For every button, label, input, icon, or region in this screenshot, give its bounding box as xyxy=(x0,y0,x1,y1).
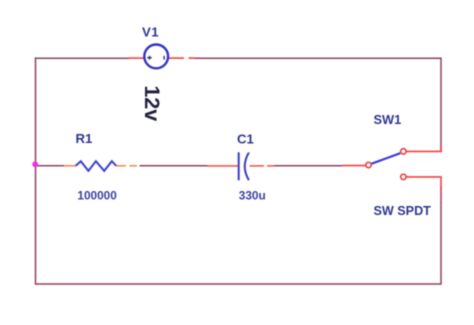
wire bottom side xyxy=(35,283,442,285)
wire middle: node to R1 xyxy=(35,165,64,167)
node junction dot (magenta) xyxy=(32,161,38,167)
V1 minus sign (vertical tick) xyxy=(163,56,165,60)
svg-text:12v: 12v xyxy=(140,85,164,121)
wire middle: R1 to C1 xyxy=(140,165,208,167)
switch SW1 throw2 terminal xyxy=(401,174,406,179)
switch SW1 pin (common, from wire) xyxy=(342,165,365,167)
wire right side upper (top wire to switch throw 1) xyxy=(440,57,442,151)
voltage source V1 body xyxy=(144,45,168,69)
svg-text:SW SPDT: SW SPDT xyxy=(374,204,432,218)
switch SW1 throw1 terminal xyxy=(401,149,406,154)
svg-text:330u: 330u xyxy=(239,189,266,203)
wire right side lower (switch throw 2 to bottom wire) xyxy=(440,202,442,284)
switch SW1 common terminal xyxy=(366,162,371,167)
capacitor C1 curved plate xyxy=(245,153,249,181)
V1 plus sign xyxy=(147,56,152,60)
resistor R1 zigzag body xyxy=(76,161,117,171)
capacitor C1 pins xyxy=(208,165,239,167)
wire left side xyxy=(35,57,37,284)
wire top-left loop: top side xyxy=(35,57,130,59)
svg-text:R1: R1 xyxy=(76,131,93,146)
svg-text:100000: 100000 xyxy=(77,189,117,203)
resistor R1 pins xyxy=(64,165,76,167)
svg-text:C1: C1 xyxy=(237,132,254,147)
wire top side right of V1 xyxy=(195,57,441,59)
svg-text:V1: V1 xyxy=(142,24,159,39)
svg-text:SW1: SW1 xyxy=(374,112,402,127)
wire transition segment (red to maroon) on right lower vertical xyxy=(440,187,442,203)
capacitor C1 straight plate xyxy=(238,152,240,180)
wire middle: C1 to SW1 xyxy=(274,165,342,167)
switch SW1 pin throw2 to right corner xyxy=(407,177,442,188)
switch SW1 lever (blue) xyxy=(372,153,401,164)
switch SW1 pin throw1 to right corner xyxy=(407,146,442,151)
voltage source V1 pins xyxy=(129,57,145,59)
